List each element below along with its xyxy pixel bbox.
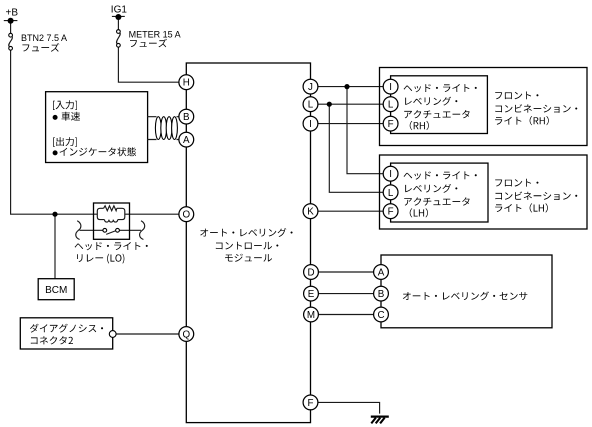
svg-text:H: H: [183, 78, 190, 89]
svg-text:K: K: [307, 207, 314, 218]
svg-text:F: F: [388, 207, 394, 218]
svg-text:I: I: [389, 169, 392, 180]
svg-text:J: J: [308, 82, 313, 93]
svg-text:O: O: [182, 210, 190, 221]
svg-text:IG1: IG1: [111, 5, 128, 16]
svg-text:BCM: BCM: [45, 285, 67, 296]
svg-text:+B: +B: [6, 8, 19, 19]
svg-text:E: E: [308, 289, 315, 300]
svg-text:A: A: [378, 268, 385, 279]
svg-text:L: L: [388, 100, 394, 111]
svg-text:L: L: [388, 188, 394, 199]
svg-text:A: A: [183, 135, 190, 146]
svg-text:F: F: [388, 119, 394, 130]
svg-text:M: M: [307, 310, 315, 321]
svg-text:I: I: [389, 82, 392, 93]
svg-text:METER 15 A: METER 15 A: [129, 29, 181, 39]
svg-text:L: L: [308, 100, 314, 111]
svg-text:F: F: [308, 398, 314, 409]
svg-text:C: C: [377, 310, 384, 321]
svg-text:Q: Q: [182, 330, 190, 341]
svg-text:D: D: [307, 268, 314, 279]
svg-text:I: I: [309, 119, 312, 130]
svg-text:B: B: [183, 112, 190, 123]
svg-text:BTN2 7.5 A: BTN2 7.5 A: [21, 33, 67, 43]
svg-text:B: B: [378, 289, 385, 300]
